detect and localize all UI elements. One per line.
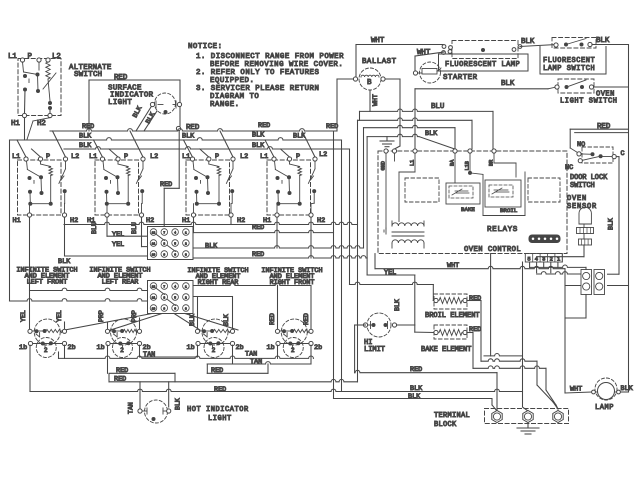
- svg-text:5: 5: [527, 256, 530, 262]
- svg-text:BLK: BLK: [189, 314, 196, 326]
- svg-text:RELAYS: RELAYS: [487, 226, 518, 234]
- svg-text:11: 11: [152, 297, 156, 300]
- svg-text:YEL: YEL: [384, 269, 396, 277]
- svg-text:L2: L2: [52, 53, 61, 61]
- svg-text:HOT INDICATOR: HOT INDICATOR: [187, 406, 249, 414]
- svg-text:RED: RED: [82, 123, 94, 131]
- svg-text:BLK: BLK: [79, 142, 92, 150]
- svg-text:LEFT REAR: LEFT REAR: [102, 279, 139, 287]
- svg-text:6: 6: [174, 254, 176, 257]
- svg-text:2b: 2b: [314, 344, 322, 352]
- svg-text:H2: H2: [70, 217, 78, 225]
- svg-text:RED: RED: [211, 367, 223, 375]
- svg-text:RED: RED: [326, 123, 338, 131]
- svg-text:H1: H1: [182, 217, 190, 225]
- svg-text:TAN: TAN: [250, 358, 262, 366]
- svg-text:NO: NO: [577, 141, 585, 149]
- svg-text:YEL: YEL: [56, 310, 63, 322]
- svg-text:BLK: BLK: [425, 130, 438, 138]
- svg-text:TAN: TAN: [143, 351, 155, 359]
- svg-text:WHT: WHT: [371, 37, 385, 45]
- svg-text:BLK: BLK: [596, 37, 610, 45]
- svg-text:2: 2: [185, 243, 187, 246]
- svg-text:B: B: [367, 79, 372, 87]
- svg-text:BLK: BLK: [132, 105, 144, 119]
- svg-text:9: 9: [163, 254, 165, 257]
- svg-text:BLOCK: BLOCK: [434, 421, 457, 429]
- svg-text:H2: H2: [317, 217, 325, 225]
- svg-text:EQUIPPED.: EQUIPPED.: [210, 77, 254, 85]
- svg-text:RED: RED: [114, 74, 128, 82]
- svg-text:RED: RED: [114, 376, 126, 384]
- svg-text:PRP: PRP: [98, 310, 105, 322]
- svg-text:NOTICE:: NOTICE:: [188, 43, 223, 51]
- svg-text:NC: NC: [565, 164, 573, 172]
- svg-text:H2: H2: [237, 217, 245, 225]
- svg-text:RED: RED: [160, 181, 172, 189]
- svg-text:12: 12: [152, 232, 156, 235]
- svg-text:BLK: BLK: [521, 38, 535, 46]
- svg-text:1: 1: [185, 232, 187, 235]
- svg-text:OVEN CONTROL: OVEN CONTROL: [464, 246, 521, 254]
- svg-text:3. SERVICER PLEASE RETURN: 3. SERVICER PLEASE RETURN: [196, 85, 319, 93]
- svg-text:LIGHT SWITCH: LIGHT SWITCH: [560, 98, 618, 106]
- svg-text:LAMP SWITCH: LAMP SWITCH: [543, 65, 595, 73]
- svg-text:7: 7: [163, 232, 165, 235]
- svg-text:LAMP: LAMP: [595, 404, 614, 412]
- svg-text:H2: H2: [37, 120, 46, 128]
- svg-text:STARTER: STARTER: [443, 74, 478, 82]
- svg-text:BLK: BLK: [410, 385, 423, 393]
- svg-text:DOOR LOCK: DOOR LOCK: [570, 174, 608, 182]
- svg-text:BLU: BLU: [431, 103, 444, 111]
- svg-text:SWITCH: SWITCH: [570, 182, 595, 190]
- svg-text:BLK: BLK: [608, 218, 615, 230]
- svg-text:RED: RED: [214, 386, 226, 394]
- svg-text:L2: L2: [319, 151, 327, 159]
- svg-text:BLK: BLK: [145, 111, 157, 125]
- svg-text:RED: RED: [303, 313, 310, 325]
- svg-text:LIGHT: LIGHT: [108, 99, 132, 107]
- svg-text:11: 11: [152, 243, 156, 246]
- svg-text:1b: 1b: [267, 344, 275, 352]
- svg-text:4: 4: [174, 232, 176, 235]
- svg-text:9: 9: [163, 308, 165, 311]
- svg-text:LIGHT: LIGHT: [208, 415, 232, 423]
- svg-text:DIAGRAM TO: DIAGRAM TO: [210, 93, 259, 101]
- svg-text:BLK: BLK: [79, 133, 92, 141]
- svg-text:BLK: BLK: [408, 393, 421, 401]
- svg-text:8: 8: [163, 243, 165, 246]
- svg-text:FLUORESCENT: FLUORESCENT: [543, 57, 595, 65]
- svg-text:L2: L2: [150, 153, 158, 161]
- svg-text:BLK: BLK: [223, 314, 230, 326]
- svg-text:2b: 2b: [236, 344, 244, 352]
- svg-text:RED: RED: [252, 224, 264, 232]
- svg-text:BLK: BLK: [205, 243, 218, 251]
- svg-text:YEL: YEL: [20, 310, 27, 322]
- svg-text:OVEN: OVEN: [567, 195, 587, 203]
- svg-text:YEL: YEL: [112, 231, 124, 239]
- svg-text:YEL: YEL: [112, 241, 124, 249]
- svg-text:1b: 1b: [187, 344, 195, 352]
- svg-text:1: 1: [185, 286, 187, 289]
- svg-text:BROIL ELEMENT: BROIL ELEMENT: [425, 312, 480, 320]
- svg-text:BROIL: BROIL: [500, 207, 518, 214]
- svg-text:H1: H1: [13, 217, 21, 225]
- svg-text:2. REFER ONLY TO FEATURES: 2. REFER ONLY TO FEATURES: [196, 69, 319, 77]
- svg-text:2: 2: [120, 347, 124, 354]
- svg-text:RED: RED: [269, 313, 276, 325]
- svg-text:TERMINAL: TERMINAL: [434, 412, 470, 420]
- svg-text:3: 3: [185, 254, 187, 257]
- svg-text:4: 4: [174, 286, 176, 289]
- svg-text:SWITCH: SWITCH: [74, 71, 102, 79]
- svg-text:C: C: [621, 150, 625, 158]
- svg-text:WHT: WHT: [372, 94, 379, 106]
- svg-text:BEFORE REMOVING WIRE COVER.: BEFORE REMOVING WIRE COVER.: [210, 61, 343, 69]
- svg-text:BLK: BLK: [175, 398, 182, 410]
- svg-text:6: 6: [174, 308, 176, 311]
- svg-text:H2: H2: [146, 217, 154, 225]
- svg-text:BLK: BLK: [501, 80, 515, 88]
- svg-text:10: 10: [152, 308, 156, 311]
- svg-text:TAN: TAN: [128, 402, 135, 414]
- svg-text:1. DISCONNECT RANGE FROM POWER: 1. DISCONNECT RANGE FROM POWER: [196, 53, 344, 61]
- svg-text:WHT: WHT: [570, 386, 582, 394]
- svg-text:BALLAST: BALLAST: [362, 58, 397, 66]
- svg-text:5: 5: [174, 243, 176, 246]
- svg-text:RED: RED: [469, 295, 481, 303]
- svg-text:LEFT FRONT: LEFT FRONT: [27, 279, 68, 287]
- svg-text:L2: L2: [240, 153, 248, 161]
- svg-text:2: 2: [291, 347, 295, 354]
- svg-text:8: 8: [163, 297, 165, 300]
- svg-text:2b: 2b: [68, 344, 76, 352]
- svg-text:FLUORESCENT LAMP: FLUORESCENT LAMP: [445, 61, 520, 69]
- svg-text:5: 5: [174, 297, 176, 300]
- svg-text:BLK: BLK: [252, 132, 265, 140]
- svg-text:BLK: BLK: [58, 258, 71, 266]
- svg-text:RED: RED: [258, 122, 270, 130]
- svg-text:3: 3: [185, 308, 187, 311]
- svg-text:PRP: PRP: [131, 310, 138, 322]
- svg-text:BLK: BLK: [182, 133, 195, 141]
- svg-text:BLU: BLU: [131, 222, 138, 234]
- svg-text:L1: L1: [8, 53, 17, 61]
- svg-text:H1: H1: [11, 120, 20, 128]
- svg-text:RANGE.: RANGE.: [210, 101, 240, 109]
- svg-text:L2: L2: [71, 153, 79, 161]
- svg-text:1b: 1b: [97, 344, 105, 352]
- svg-text:SENSOR: SENSOR: [567, 203, 597, 211]
- svg-text:2: 2: [212, 347, 216, 354]
- svg-text:7: 7: [163, 286, 165, 289]
- svg-text:RED: RED: [252, 251, 264, 259]
- svg-text:BLK: BLK: [394, 299, 401, 311]
- svg-text:P: P: [28, 53, 33, 61]
- svg-text:RED: RED: [410, 366, 422, 374]
- svg-text:BLK: BLK: [252, 142, 265, 150]
- svg-text:1b: 1b: [19, 344, 27, 352]
- svg-text:LIMIT: LIMIT: [364, 346, 385, 354]
- svg-text:RED: RED: [597, 123, 611, 131]
- svg-text:2: 2: [44, 347, 48, 354]
- svg-text:2: 2: [185, 297, 187, 300]
- svg-text:BAKE ELEMENT: BAKE ELEMENT: [421, 346, 471, 354]
- svg-text:BLU: BLU: [91, 222, 98, 234]
- svg-text:10: 10: [152, 254, 156, 257]
- svg-text:12: 12: [152, 286, 156, 289]
- svg-text:BAKE: BAKE: [461, 206, 475, 213]
- svg-text:RED: RED: [116, 367, 128, 375]
- svg-text:BLK: BLK: [621, 385, 634, 393]
